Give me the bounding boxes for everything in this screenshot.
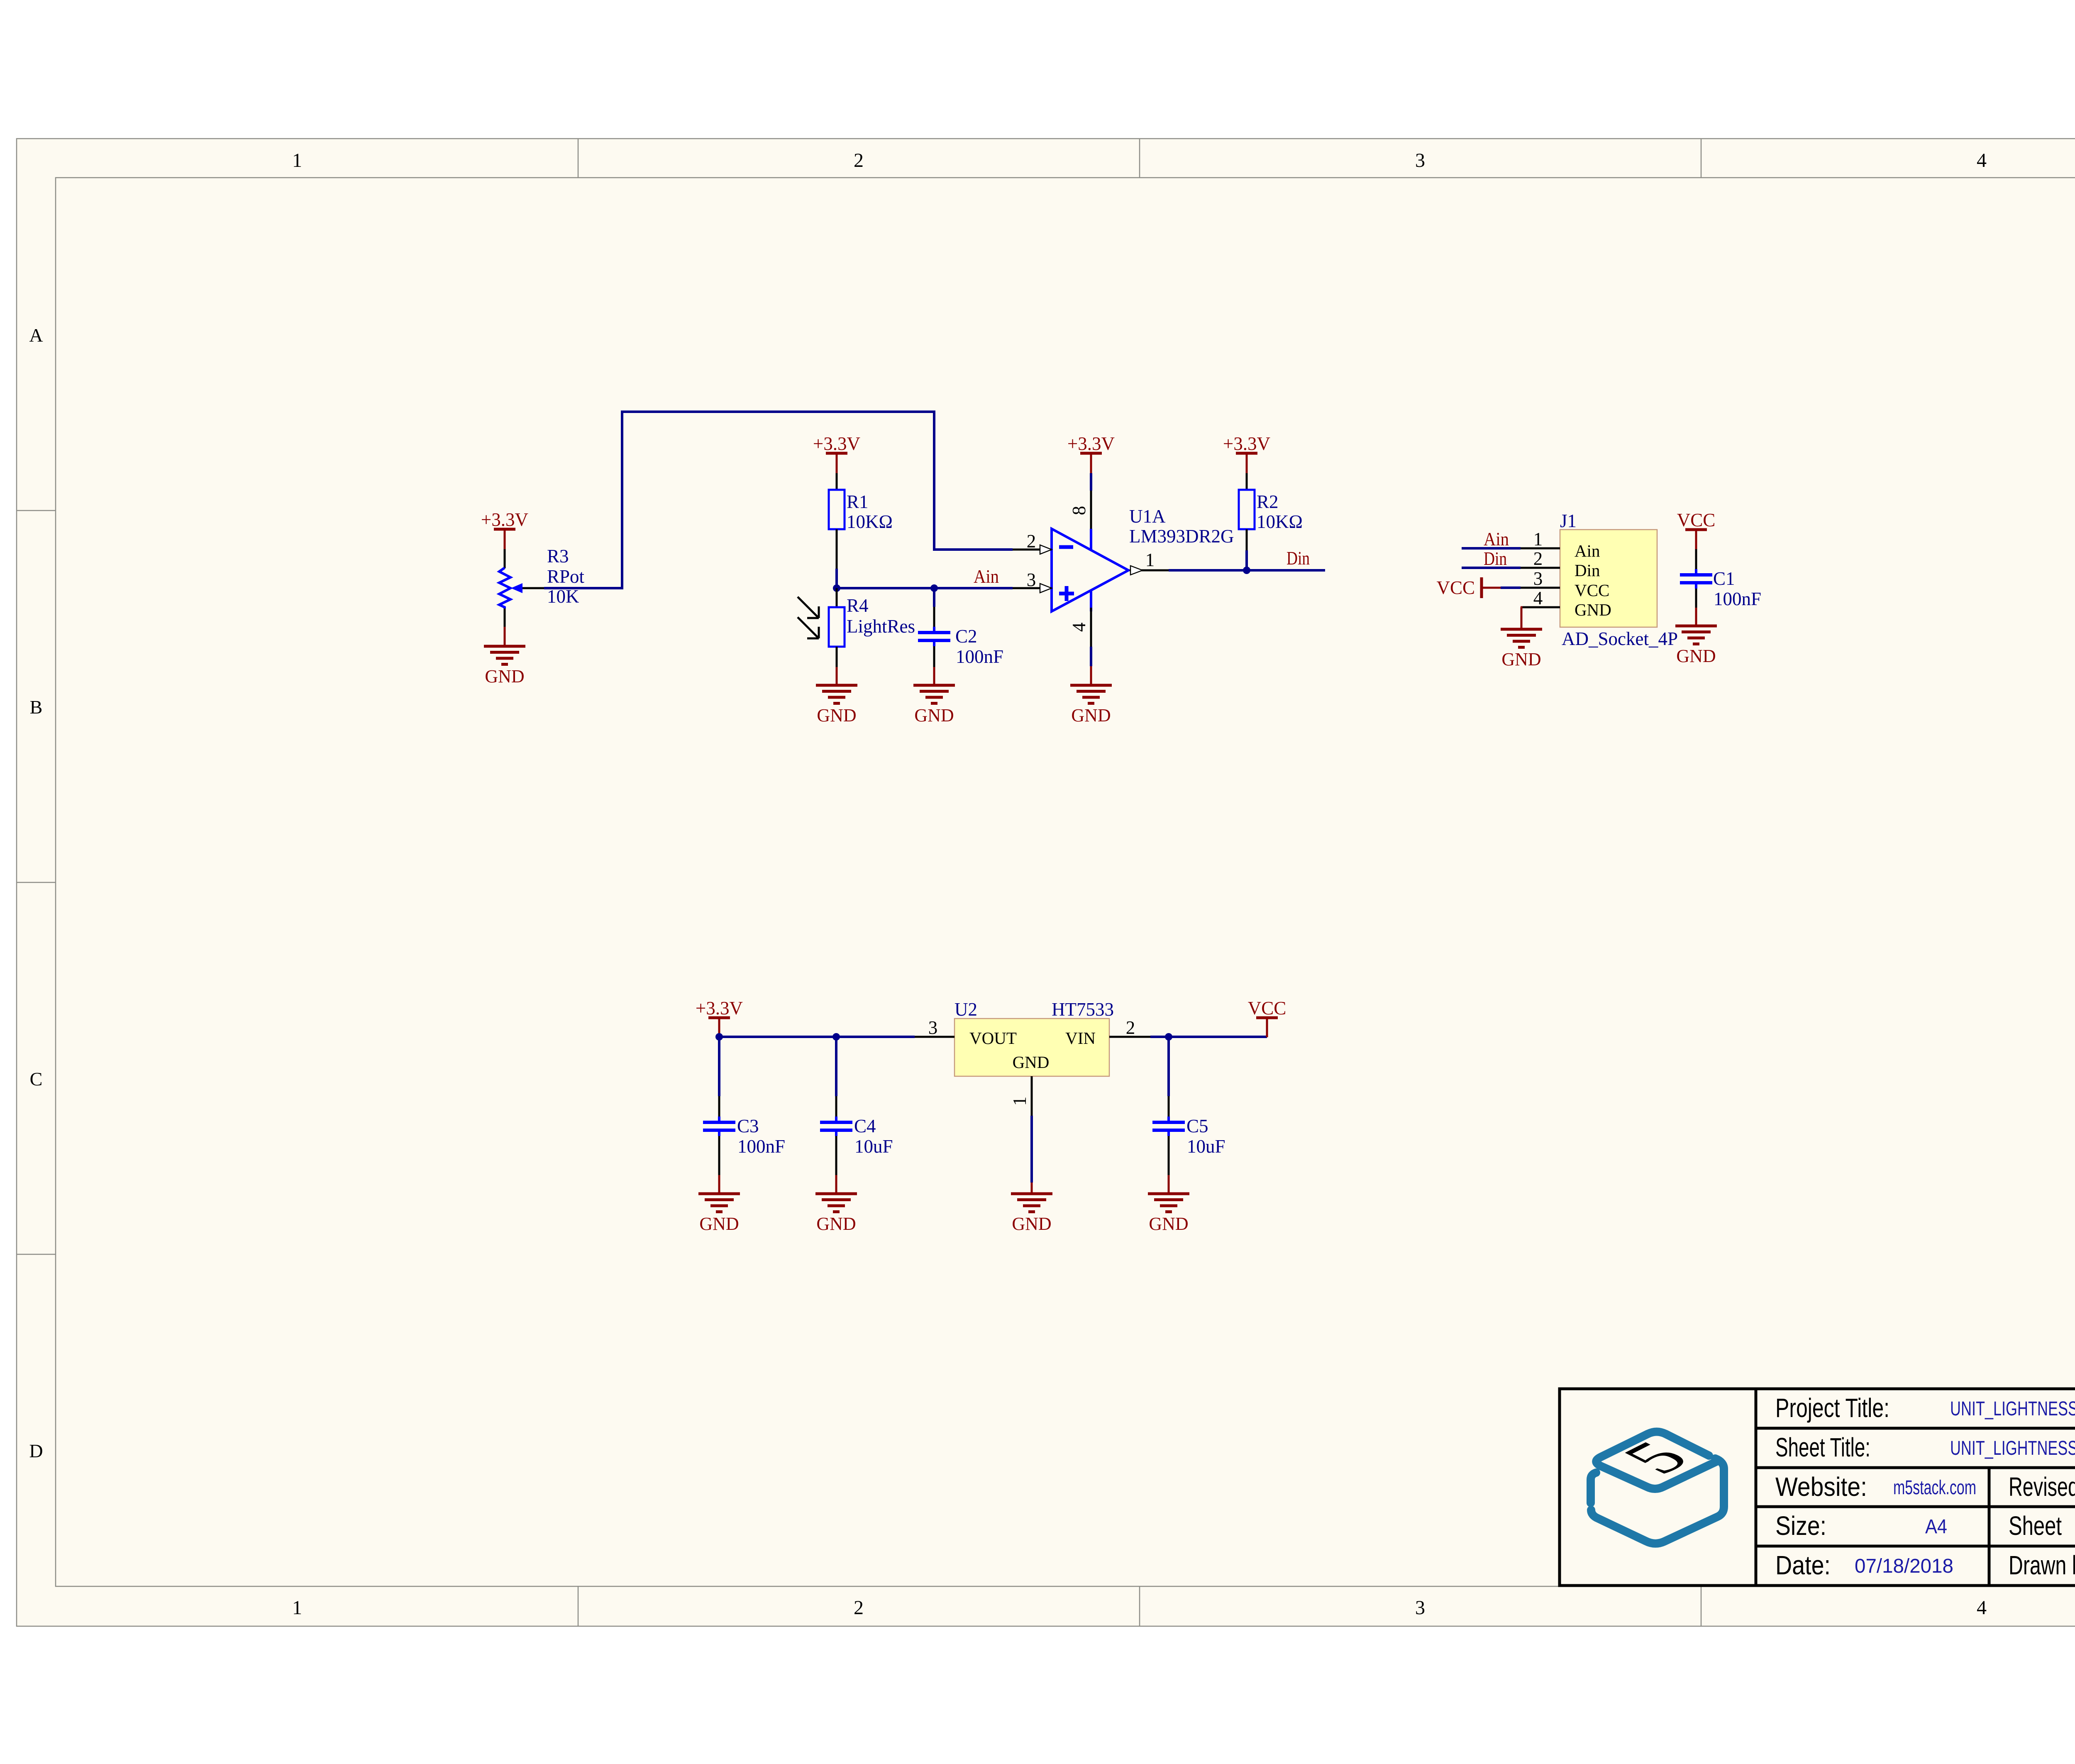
pin C3 top xyxy=(718,1096,720,1117)
power VCC for C1 xyxy=(1677,510,1716,549)
wire U1 pin4 stub xyxy=(1090,666,1092,685)
svg-text:LightRes: LightRes xyxy=(847,616,915,637)
svg-text:Ain: Ain xyxy=(1575,541,1600,560)
wire U2 pin1 stub xyxy=(1031,1183,1033,1194)
svg-text:GND: GND xyxy=(816,1214,856,1234)
svg-text:R2: R2 xyxy=(1257,491,1279,512)
svg-text:GND: GND xyxy=(1013,1053,1050,1072)
pin 2 of U2 VIN xyxy=(1109,1036,1150,1038)
junction R2/Din xyxy=(1243,567,1250,574)
regulator U2 HT7533 body xyxy=(954,1019,1109,1076)
wire VCC stem xyxy=(1266,1018,1268,1037)
svg-text:+3.3V: +3.3V xyxy=(813,433,860,454)
wire Din net xyxy=(1169,569,1325,572)
op-amp U1A LM393DR2G xyxy=(1052,529,1128,611)
svg-text:Revised:: Revised: xyxy=(2009,1472,2075,1502)
svg-text:GND: GND xyxy=(1676,646,1716,666)
svg-text:VCC: VCC xyxy=(1677,510,1716,530)
wire Ain net xyxy=(837,587,1013,589)
power +3.3V for U1 pin8 xyxy=(1067,433,1115,473)
wire R4 bottom stub xyxy=(836,667,838,685)
svg-text:U1A: U1A xyxy=(1129,506,1166,527)
svg-text:C1: C1 xyxy=(1713,568,1735,589)
pin R3 top xyxy=(504,549,506,568)
inner border xyxy=(56,178,2075,1586)
svg-text:HT7533: HT7533 xyxy=(1052,999,1114,1020)
wire C2 bottom stub xyxy=(933,667,935,685)
svg-text:2: 2 xyxy=(854,149,864,171)
power +3.3V for U2 VOUT rail xyxy=(696,998,743,1038)
ground under C5 xyxy=(1148,1194,1189,1212)
svg-text:1: 1 xyxy=(1533,529,1543,550)
wire VIN rail xyxy=(1150,1036,1267,1038)
svg-text:VIN: VIN xyxy=(1065,1029,1096,1048)
svg-text:VCC: VCC xyxy=(1575,581,1609,600)
pin 8 of U1A xyxy=(1090,491,1092,529)
wire +3.3V stem to rail xyxy=(718,1018,720,1037)
svg-text:Din: Din xyxy=(1484,548,1507,569)
capacitor C1 xyxy=(1680,569,1712,589)
logo m5stack xyxy=(1591,1432,1724,1544)
potentiometer R3 xyxy=(499,568,522,608)
svg-text:GND: GND xyxy=(1149,1214,1188,1234)
pin C3 bottom xyxy=(718,1136,720,1175)
pin 3 of U2 VOUT xyxy=(915,1036,954,1038)
wire J1 Din xyxy=(1462,567,1521,569)
pin R3 bottom xyxy=(504,608,506,627)
svg-text:VCC: VCC xyxy=(1436,577,1475,598)
svg-text:+3.3V: +3.3V xyxy=(696,998,743,1019)
svg-text:4: 4 xyxy=(1977,1597,1987,1619)
svg-text:VCC: VCC xyxy=(1248,998,1286,1019)
power VCC for J1 xyxy=(1436,577,1501,598)
wire C3 bottom stub xyxy=(718,1175,720,1194)
svg-text:1: 1 xyxy=(1145,550,1155,570)
junction C2 tap xyxy=(930,584,938,592)
ground under C1 xyxy=(1675,626,1717,644)
wire R2 to Din node xyxy=(1245,550,1248,570)
wire C3 branch xyxy=(718,1037,720,1096)
pin C4 bottom xyxy=(835,1136,837,1175)
junction rail at C4 xyxy=(832,1033,840,1041)
svg-text:Website:: Website: xyxy=(1775,1472,1867,1502)
svg-text:GND: GND xyxy=(817,705,856,726)
connector J1 AD_Socket_4P body xyxy=(1560,530,1657,627)
svg-text:Din: Din xyxy=(1575,561,1600,580)
svg-text:RPot: RPot xyxy=(547,566,585,587)
svg-text:GND: GND xyxy=(699,1214,739,1234)
resistor R4 body xyxy=(829,607,845,647)
svg-text:Size:: Size: xyxy=(1775,1511,1826,1541)
svg-text:C4: C4 xyxy=(854,1116,876,1136)
svg-text:A: A xyxy=(29,325,43,346)
svg-text:Ain: Ain xyxy=(974,566,999,587)
power +3.3V for R3 xyxy=(481,509,528,549)
capacitor C3 xyxy=(703,1117,735,1136)
svg-text:GND: GND xyxy=(1575,600,1611,619)
svg-text:2: 2 xyxy=(1533,548,1543,569)
svg-text:10KΩ: 10KΩ xyxy=(847,511,893,532)
svg-text:B: B xyxy=(30,696,43,718)
svg-text:3: 3 xyxy=(1027,569,1036,590)
svg-text:3: 3 xyxy=(928,1017,938,1038)
svg-text:UNIT_LIGHTNESS.SchDoc: UNIT_LIGHTNESS.SchDoc xyxy=(1950,1437,2075,1459)
wire U2 gnd pin xyxy=(1030,1116,1033,1183)
svg-text:UNIT_LIGHTNESS.PrjPCB: UNIT_LIGHTNESS.PrjPCB xyxy=(1950,1398,2075,1420)
pin 1 of U2 GND xyxy=(1031,1076,1033,1116)
svg-text:4: 4 xyxy=(1069,623,1089,632)
pin R1 top xyxy=(836,473,838,490)
pin C2 top xyxy=(933,607,935,627)
ground under R4 xyxy=(816,685,857,704)
svg-text:8: 8 xyxy=(1069,506,1089,516)
svg-text:10KΩ: 10KΩ xyxy=(1257,511,1303,532)
svg-text:GND: GND xyxy=(485,666,524,687)
wire R3 bottom stub xyxy=(504,627,506,646)
wire pin8 supply xyxy=(1090,473,1092,491)
svg-text:Sheet Title:: Sheet Title: xyxy=(1775,1432,1870,1462)
wire C4 bottom stub xyxy=(835,1175,837,1194)
svg-text:2: 2 xyxy=(854,1597,864,1619)
svg-text:+3.3V: +3.3V xyxy=(1223,433,1270,454)
wire C5 branch xyxy=(1167,1037,1170,1096)
pin 4 of U1A xyxy=(1090,608,1092,647)
capacitor C2 xyxy=(918,627,950,646)
power VCC for U2 VIN xyxy=(1248,998,1286,1037)
wire R1 to Ain node xyxy=(835,569,838,588)
svg-text:10uF: 10uF xyxy=(1187,1136,1225,1157)
svg-text:Ain: Ain xyxy=(1484,529,1509,550)
svg-text:1: 1 xyxy=(1009,1097,1030,1106)
svg-text:LM393DR2G: LM393DR2G xyxy=(1129,526,1234,547)
junction rail at C5 xyxy=(1165,1033,1172,1041)
resistor R1 body xyxy=(829,490,845,529)
pin R4 bottom xyxy=(836,647,838,667)
pin R4 top xyxy=(836,588,838,607)
svg-text:A4: A4 xyxy=(1925,1516,1947,1538)
svg-text:VOUT: VOUT xyxy=(969,1029,1017,1048)
pin 1 of J1 xyxy=(1521,547,1560,550)
pin C5 bottom xyxy=(1168,1136,1170,1175)
svg-text:AD_Socket_4P: AD_Socket_4P xyxy=(1562,628,1678,649)
svg-text:10uF: 10uF xyxy=(854,1136,893,1157)
svg-text:07/18/2018: 07/18/2018 xyxy=(1855,1555,1953,1577)
ground under U1A xyxy=(1070,685,1112,704)
svg-text:+3.3V: +3.3V xyxy=(1067,433,1115,454)
pin 3 of U1A xyxy=(1013,584,1052,593)
capacitor C4 xyxy=(820,1117,852,1136)
pin 2 of J1 xyxy=(1521,567,1560,569)
pin 1 of U1A (output) xyxy=(1130,566,1169,575)
capacitor C5 xyxy=(1152,1117,1185,1136)
pin C5 top xyxy=(1168,1096,1170,1117)
svg-text:2: 2 xyxy=(1126,1017,1135,1038)
wire VOUT rail xyxy=(719,1036,915,1038)
svg-text:3: 3 xyxy=(1415,149,1425,171)
svg-text:Sheet: Sheet xyxy=(2009,1511,2062,1541)
svg-text:D: D xyxy=(29,1440,43,1461)
svg-text:Project Title:: Project Title: xyxy=(1775,1393,1889,1423)
svg-text:4: 4 xyxy=(1977,149,1987,171)
pin C2 bottom xyxy=(933,646,935,667)
ground under C4 xyxy=(815,1194,857,1212)
svg-text:100nF: 100nF xyxy=(956,646,1003,667)
ground under C2 xyxy=(913,685,955,704)
wire pin4 to gnd xyxy=(1090,647,1092,666)
svg-text:3: 3 xyxy=(1533,568,1543,589)
svg-text:Date:: Date: xyxy=(1775,1550,1831,1580)
svg-text:4: 4 xyxy=(1533,588,1543,608)
svg-text:C3: C3 xyxy=(737,1116,759,1136)
svg-text:100nF: 100nF xyxy=(1714,589,1761,609)
svg-text:R3: R3 xyxy=(547,546,569,567)
ground under C3 xyxy=(698,1194,740,1212)
svg-text:C2: C2 xyxy=(955,626,977,647)
svg-text:+3.3V: +3.3V xyxy=(481,509,528,530)
pin C1 top xyxy=(1695,549,1697,569)
svg-text:R4: R4 xyxy=(847,595,869,616)
svg-text:m5stack.com: m5stack.com xyxy=(1893,1477,1976,1499)
svg-text:GND: GND xyxy=(1501,649,1541,669)
photoresistor R4 light arrows xyxy=(798,597,819,638)
svg-text:Drawn by:: Drawn by: xyxy=(2009,1550,2075,1580)
wire C5 bottom stub xyxy=(1168,1175,1170,1194)
svg-text:3: 3 xyxy=(1415,1597,1425,1619)
svg-text:J1: J1 xyxy=(1560,511,1577,531)
svg-text:C: C xyxy=(30,1068,43,1090)
svg-text:GND: GND xyxy=(914,705,954,726)
pin C1 bottom xyxy=(1695,589,1697,608)
pin R3 wiper xyxy=(522,587,544,589)
svg-text:GND: GND xyxy=(1071,705,1111,726)
svg-text:1: 1 xyxy=(292,1597,302,1619)
ground under J1 xyxy=(1501,629,1542,647)
svg-text:GND: GND xyxy=(1012,1214,1051,1234)
svg-text:100nF: 100nF xyxy=(737,1136,785,1157)
wire R3 wiper to U1 pin2 xyxy=(544,412,1013,588)
svg-text:Din: Din xyxy=(1286,548,1310,569)
pin 4 of J1 xyxy=(1521,606,1560,608)
wire to C2 xyxy=(933,588,935,607)
power +3.3V for R1 xyxy=(813,433,860,473)
title block frame xyxy=(1560,1389,2075,1586)
junction R1/R4/Ain xyxy=(833,584,840,592)
junction rail at C3 xyxy=(715,1033,723,1041)
pin 2 of U1A xyxy=(1013,545,1052,554)
ground under U2 xyxy=(1011,1194,1052,1212)
pin R2 top xyxy=(1246,473,1248,490)
wire C1 bottom stub xyxy=(1695,608,1697,626)
wire J1 Ain xyxy=(1462,547,1521,550)
pin R2 bottom xyxy=(1246,529,1248,550)
pin R1 bottom xyxy=(836,529,838,569)
wire J1 pin4 to gnd xyxy=(1521,607,1521,629)
power +3.3V for R2 xyxy=(1223,433,1270,473)
pin C4 top xyxy=(835,1096,837,1117)
svg-text:R1: R1 xyxy=(847,491,869,512)
ground under R3 xyxy=(484,646,525,665)
wire VCC to J1 pin3 xyxy=(1501,586,1521,589)
svg-text:2: 2 xyxy=(1027,531,1036,552)
resistor R2 body xyxy=(1239,490,1255,529)
svg-text:U2: U2 xyxy=(954,999,977,1020)
svg-text:1: 1 xyxy=(292,149,302,171)
wire C4 branch xyxy=(835,1037,837,1096)
pin 3 of J1 xyxy=(1521,587,1560,589)
svg-text:C5: C5 xyxy=(1186,1116,1208,1136)
